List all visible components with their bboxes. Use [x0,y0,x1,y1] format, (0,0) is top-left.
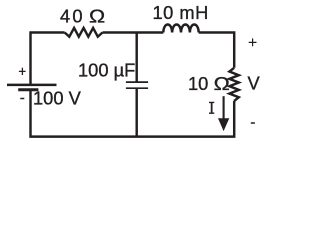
svg-text:V: V [248,72,261,93]
svg-text:100 µF: 100 µF [78,60,135,81]
svg-text:Ω: Ω [214,75,230,95]
svg-text:40: 40 [60,6,85,27]
svg-text:100 V: 100 V [33,88,82,109]
svg-text:10 mH: 10 mH [153,2,209,23]
svg-text:10: 10 [188,73,208,94]
svg-text:Ω: Ω [89,7,105,27]
